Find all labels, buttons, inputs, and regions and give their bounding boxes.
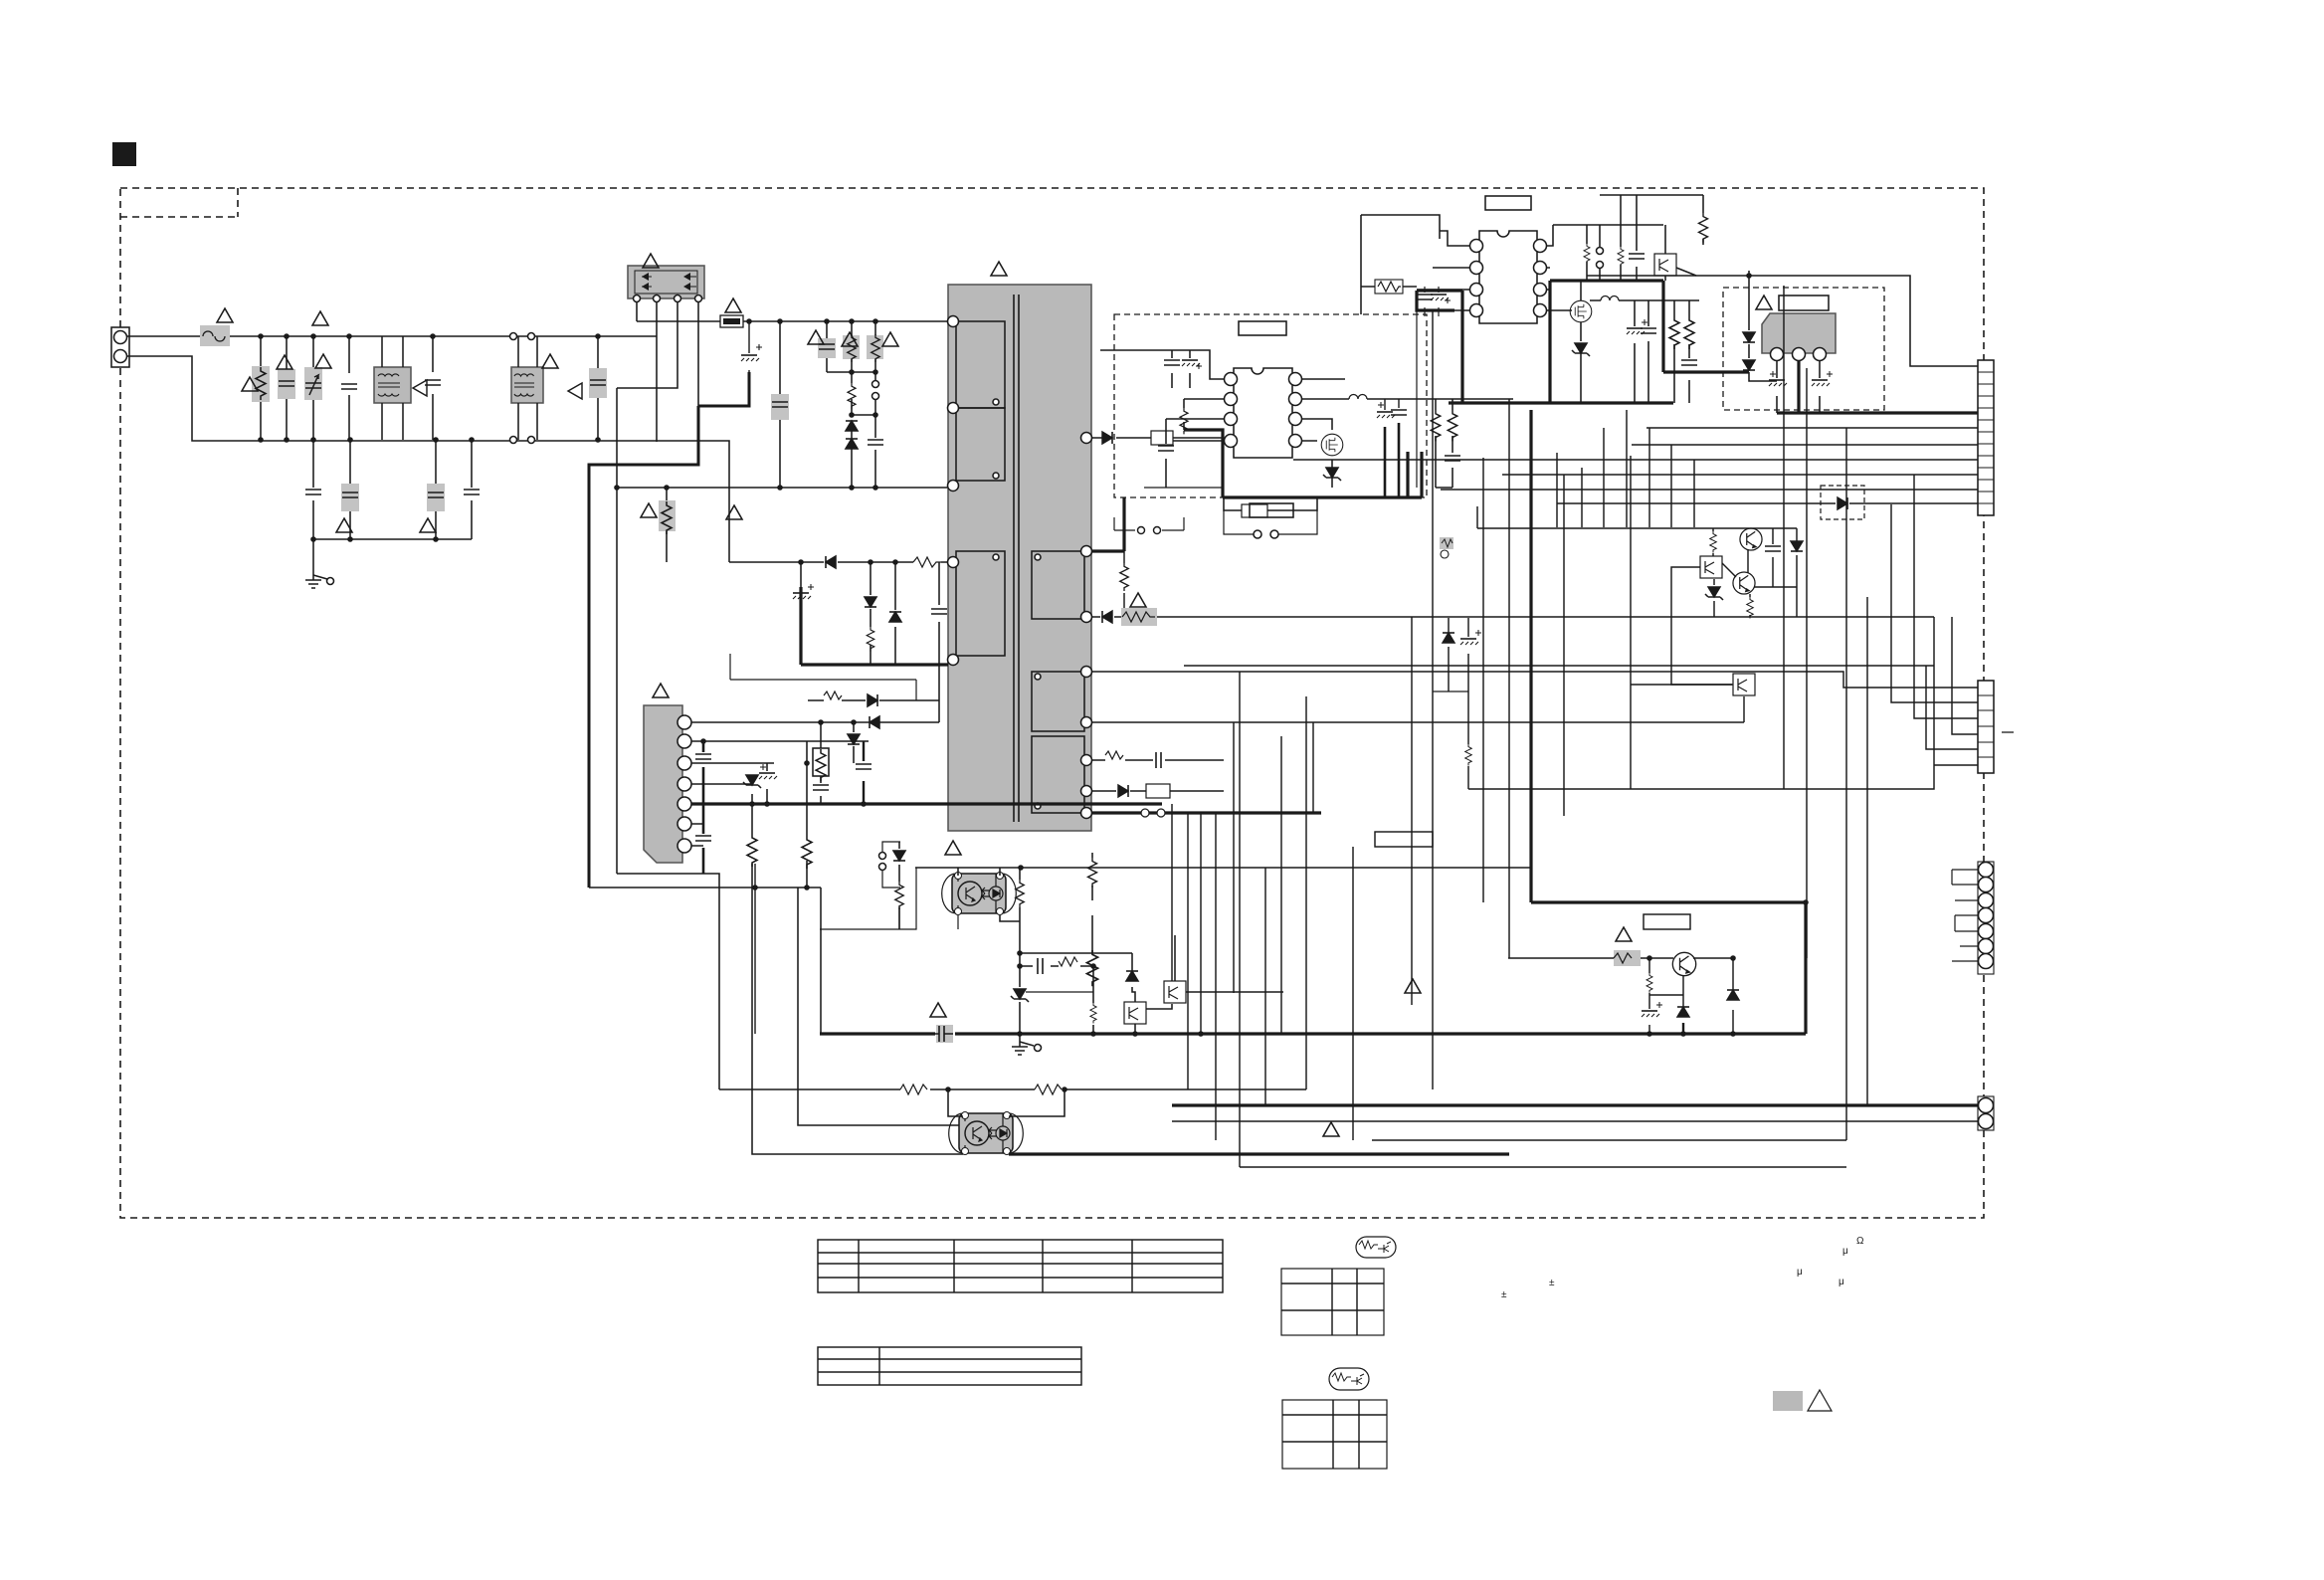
svg-text:±: ± — [1549, 1278, 1555, 1288]
svg-text:μ: μ — [1839, 1277, 1844, 1287]
svg-text:Ω: Ω — [1856, 1236, 1864, 1247]
svg-text:μ: μ — [1797, 1267, 1803, 1278]
svg-text:±: ± — [1501, 1289, 1507, 1300]
svg-text:μ: μ — [1842, 1246, 1848, 1257]
